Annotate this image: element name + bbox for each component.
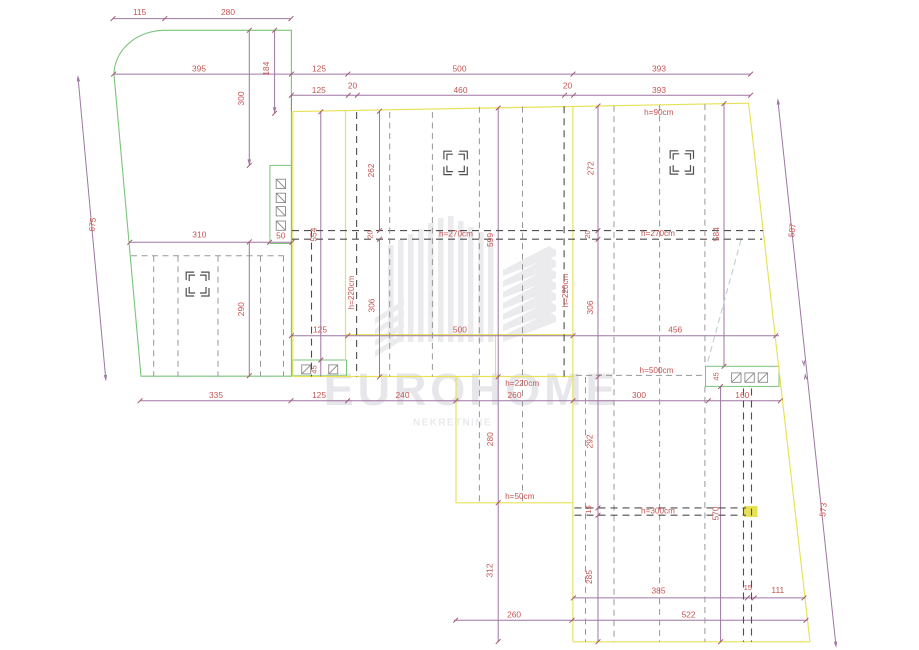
dim row 335/125/240/260/300/160 [140, 400, 781, 402]
arrow 675 top [77, 77, 79, 82]
wall line x320.8 [320, 112, 322, 377]
svg-text:50: 50 [276, 230, 286, 240]
svg-text:584: 584 [711, 227, 721, 241]
svg-text:393: 393 [652, 63, 666, 73]
dim line 290 vertical x249 [248, 242, 250, 376]
gray dashed x704.9 lower [704, 387, 706, 642]
arrow 573 mid [805, 375, 807, 380]
dim row 395/125/500/393 [114, 73, 751, 75]
extension line x291.4 [290, 95, 292, 111]
arrowhead 300 dim [248, 159, 252, 165]
dim row 125/20/460/20/393 [291, 94, 750, 96]
svg-text:45: 45 [310, 365, 319, 373]
dim 584 vertical x724 [723, 104, 725, 367]
arrow 573 bottom [834, 642, 836, 647]
svg-text:280: 280 [221, 7, 235, 17]
svg-text:h=270cm: h=270cm [439, 229, 473, 238]
green shaft rect right [706, 366, 780, 386]
yellow short wall x495 [495, 335, 497, 377]
svg-text:260: 260 [508, 390, 522, 400]
gray dashed x479.4 [478, 107, 480, 503]
column marker C1 [186, 272, 209, 296]
dashed double wall x751.5 [751, 389, 753, 642]
yellow long bottom wall y376 [293, 376, 574, 378]
svg-text:280: 280 [485, 432, 495, 446]
yellow wall x573 [572, 106, 574, 641]
yellow filled wall segment [744, 506, 758, 517]
yellow left block west wall [455, 377, 457, 503]
shaft1 hatch square 1 [302, 365, 311, 374]
svg-text:262: 262 [366, 163, 376, 177]
gray dashed green x178 [177, 256, 179, 377]
svg-text:h=220cm: h=220cm [505, 379, 539, 388]
svg-text:125: 125 [312, 63, 326, 73]
svg-text:599: 599 [485, 233, 495, 247]
svg-text:587: 587 [786, 222, 797, 237]
gray dashed h300 line b [575, 514, 747, 516]
gray dashed green area horizontal [131, 255, 284, 257]
gray dashed x614 [613, 106, 615, 642]
dim row 115/280 [113, 18, 291, 20]
shaft2 hatch square 3 [758, 373, 767, 382]
svg-text:500: 500 [453, 63, 467, 73]
dim line 300 vertical x249 [248, 30, 250, 165]
dashed diagonal stair line [707, 240, 742, 366]
dashed roof line y230.6 [292, 230, 763, 232]
arrow 587 top [777, 100, 779, 105]
svg-text:573: 573 [817, 502, 828, 517]
dashed roof line y239.2 [292, 238, 762, 240]
dim line 184 vertical x274 [274, 30, 276, 113]
svg-text:393: 393 [652, 85, 666, 95]
yellow left block south wall [456, 502, 573, 504]
svg-text:h=50cm: h=50cm [505, 492, 535, 501]
svg-text:h=500cm: h=500cm [640, 366, 674, 375]
svg-text:395: 395 [192, 63, 206, 73]
green closet rectangle [270, 165, 292, 243]
dashed wall x564.1 [563, 106, 565, 376]
yellow wall y334.7 [346, 334, 574, 336]
dim 587/573 slanted [778, 100, 836, 646]
svg-text:456: 456 [668, 325, 682, 335]
svg-text:285: 285 [584, 570, 594, 584]
svg-text:45: 45 [712, 372, 721, 380]
wall line x379.5 upper [379, 111, 381, 230]
closet hatch square 4 [276, 221, 285, 230]
svg-text:20: 20 [563, 80, 573, 90]
svg-text:125: 125 [312, 390, 326, 400]
watermark logo building icon [375, 216, 556, 357]
yellow right slanted wall [749, 103, 810, 642]
gray dashed x432.4 [431, 112, 433, 377]
svg-text:240: 240 [396, 390, 410, 400]
svg-text:h=220cm: h=220cm [347, 275, 356, 309]
wall line x598 [597, 106, 599, 642]
gray dashed green x283.5 [283, 256, 285, 377]
svg-text:300: 300 [632, 390, 646, 400]
svg-text:111: 111 [771, 585, 784, 595]
dim row 385/15/111 [573, 597, 805, 599]
svg-text:500: 500 [453, 325, 467, 335]
shaft2 hatch square 2 [745, 373, 754, 382]
closet hatch square 3 [276, 207, 285, 216]
svg-text:20: 20 [348, 80, 358, 90]
dimension oblique ticks [111, 16, 809, 644]
column marker C3 [670, 151, 693, 174]
gray dashed h500 line [576, 374, 705, 376]
svg-text:15: 15 [744, 583, 752, 592]
svg-text:460: 460 [454, 85, 468, 95]
svg-text:260: 260 [507, 610, 521, 620]
wall line x379.5 lower [379, 239, 381, 377]
svg-text:NEKRETNINE: NEKRETNINE [413, 418, 492, 429]
svg-text:125: 125 [313, 325, 327, 335]
svg-text:20: 20 [583, 230, 592, 238]
gray dashed x704.9 upper [704, 104, 706, 366]
green plot outline left building [114, 30, 291, 376]
svg-text:272: 272 [586, 161, 596, 175]
yellow left wall [292, 112, 294, 377]
closet hatch square 1 [276, 179, 285, 188]
gray dashed x585.5 [585, 377, 587, 642]
svg-text:312: 312 [485, 563, 495, 577]
dashed wall x356.6 [356, 112, 358, 377]
arrow 675 bottom [104, 375, 106, 380]
svg-text:290: 290 [236, 302, 246, 316]
svg-text:385: 385 [652, 585, 666, 595]
gray dashed x389.7 [389, 112, 391, 377]
dim row 310/50 [130, 241, 292, 243]
svg-text:h=270cm: h=270cm [641, 229, 675, 238]
dim 675 slanted [78, 77, 106, 379]
svg-text:554: 554 [308, 227, 318, 241]
dim 570 vertical x720.6 [720, 387, 722, 642]
dim row 125/500/456 [291, 335, 779, 337]
column marker C2 [444, 151, 467, 174]
svg-text:20: 20 [365, 230, 374, 238]
svg-text:522: 522 [682, 610, 696, 620]
yellow top edge slanted [293, 103, 749, 111]
gray dashed green x153.7 [153, 256, 155, 377]
svg-text:310: 310 [192, 230, 206, 240]
gray dashed x522.5 [522, 107, 524, 503]
shaft1 hatch square 2 [329, 365, 338, 374]
yellow wall x345 [345, 111, 347, 360]
arrowhead 184 dim [273, 107, 277, 113]
svg-text:15: 15 [584, 505, 593, 513]
gray dashed x659.6 [659, 105, 661, 642]
arrow 587 mid [802, 361, 804, 366]
shaft2 hatch square 1 [732, 373, 741, 382]
svg-text:306: 306 [366, 298, 376, 312]
gray dashed green x218 [217, 256, 219, 377]
svg-text:306: 306 [585, 300, 595, 314]
svg-text:h=300cm: h=300cm [641, 507, 675, 516]
svg-text:160: 160 [735, 390, 749, 400]
svg-text:335: 335 [209, 390, 223, 400]
dashed double wall x743.5 [743, 389, 745, 642]
svg-text:h=90cm: h=90cm [644, 108, 674, 117]
yellow bottom wall [573, 641, 810, 643]
svg-text:300: 300 [236, 91, 246, 105]
dashed wall x311.5 [311, 231, 313, 377]
dim row 260/522 [454, 619, 807, 621]
green shaft rect left [292, 360, 346, 376]
svg-text:570: 570 [710, 506, 720, 520]
wall line x498.2 [497, 108, 499, 642]
svg-text:EUROHOME: EUROHOME [324, 364, 619, 415]
svg-text:125: 125 [312, 85, 326, 95]
svg-text:292: 292 [584, 434, 594, 448]
gray dashed h300 line a [575, 507, 747, 509]
gray dashed green x260.5 [260, 256, 262, 377]
svg-text:675: 675 [87, 217, 98, 232]
closet hatch square 2 [276, 193, 285, 202]
svg-text:184: 184 [261, 61, 271, 75]
svg-text:h=220cm: h=220cm [561, 273, 570, 307]
svg-text:115: 115 [133, 7, 147, 17]
